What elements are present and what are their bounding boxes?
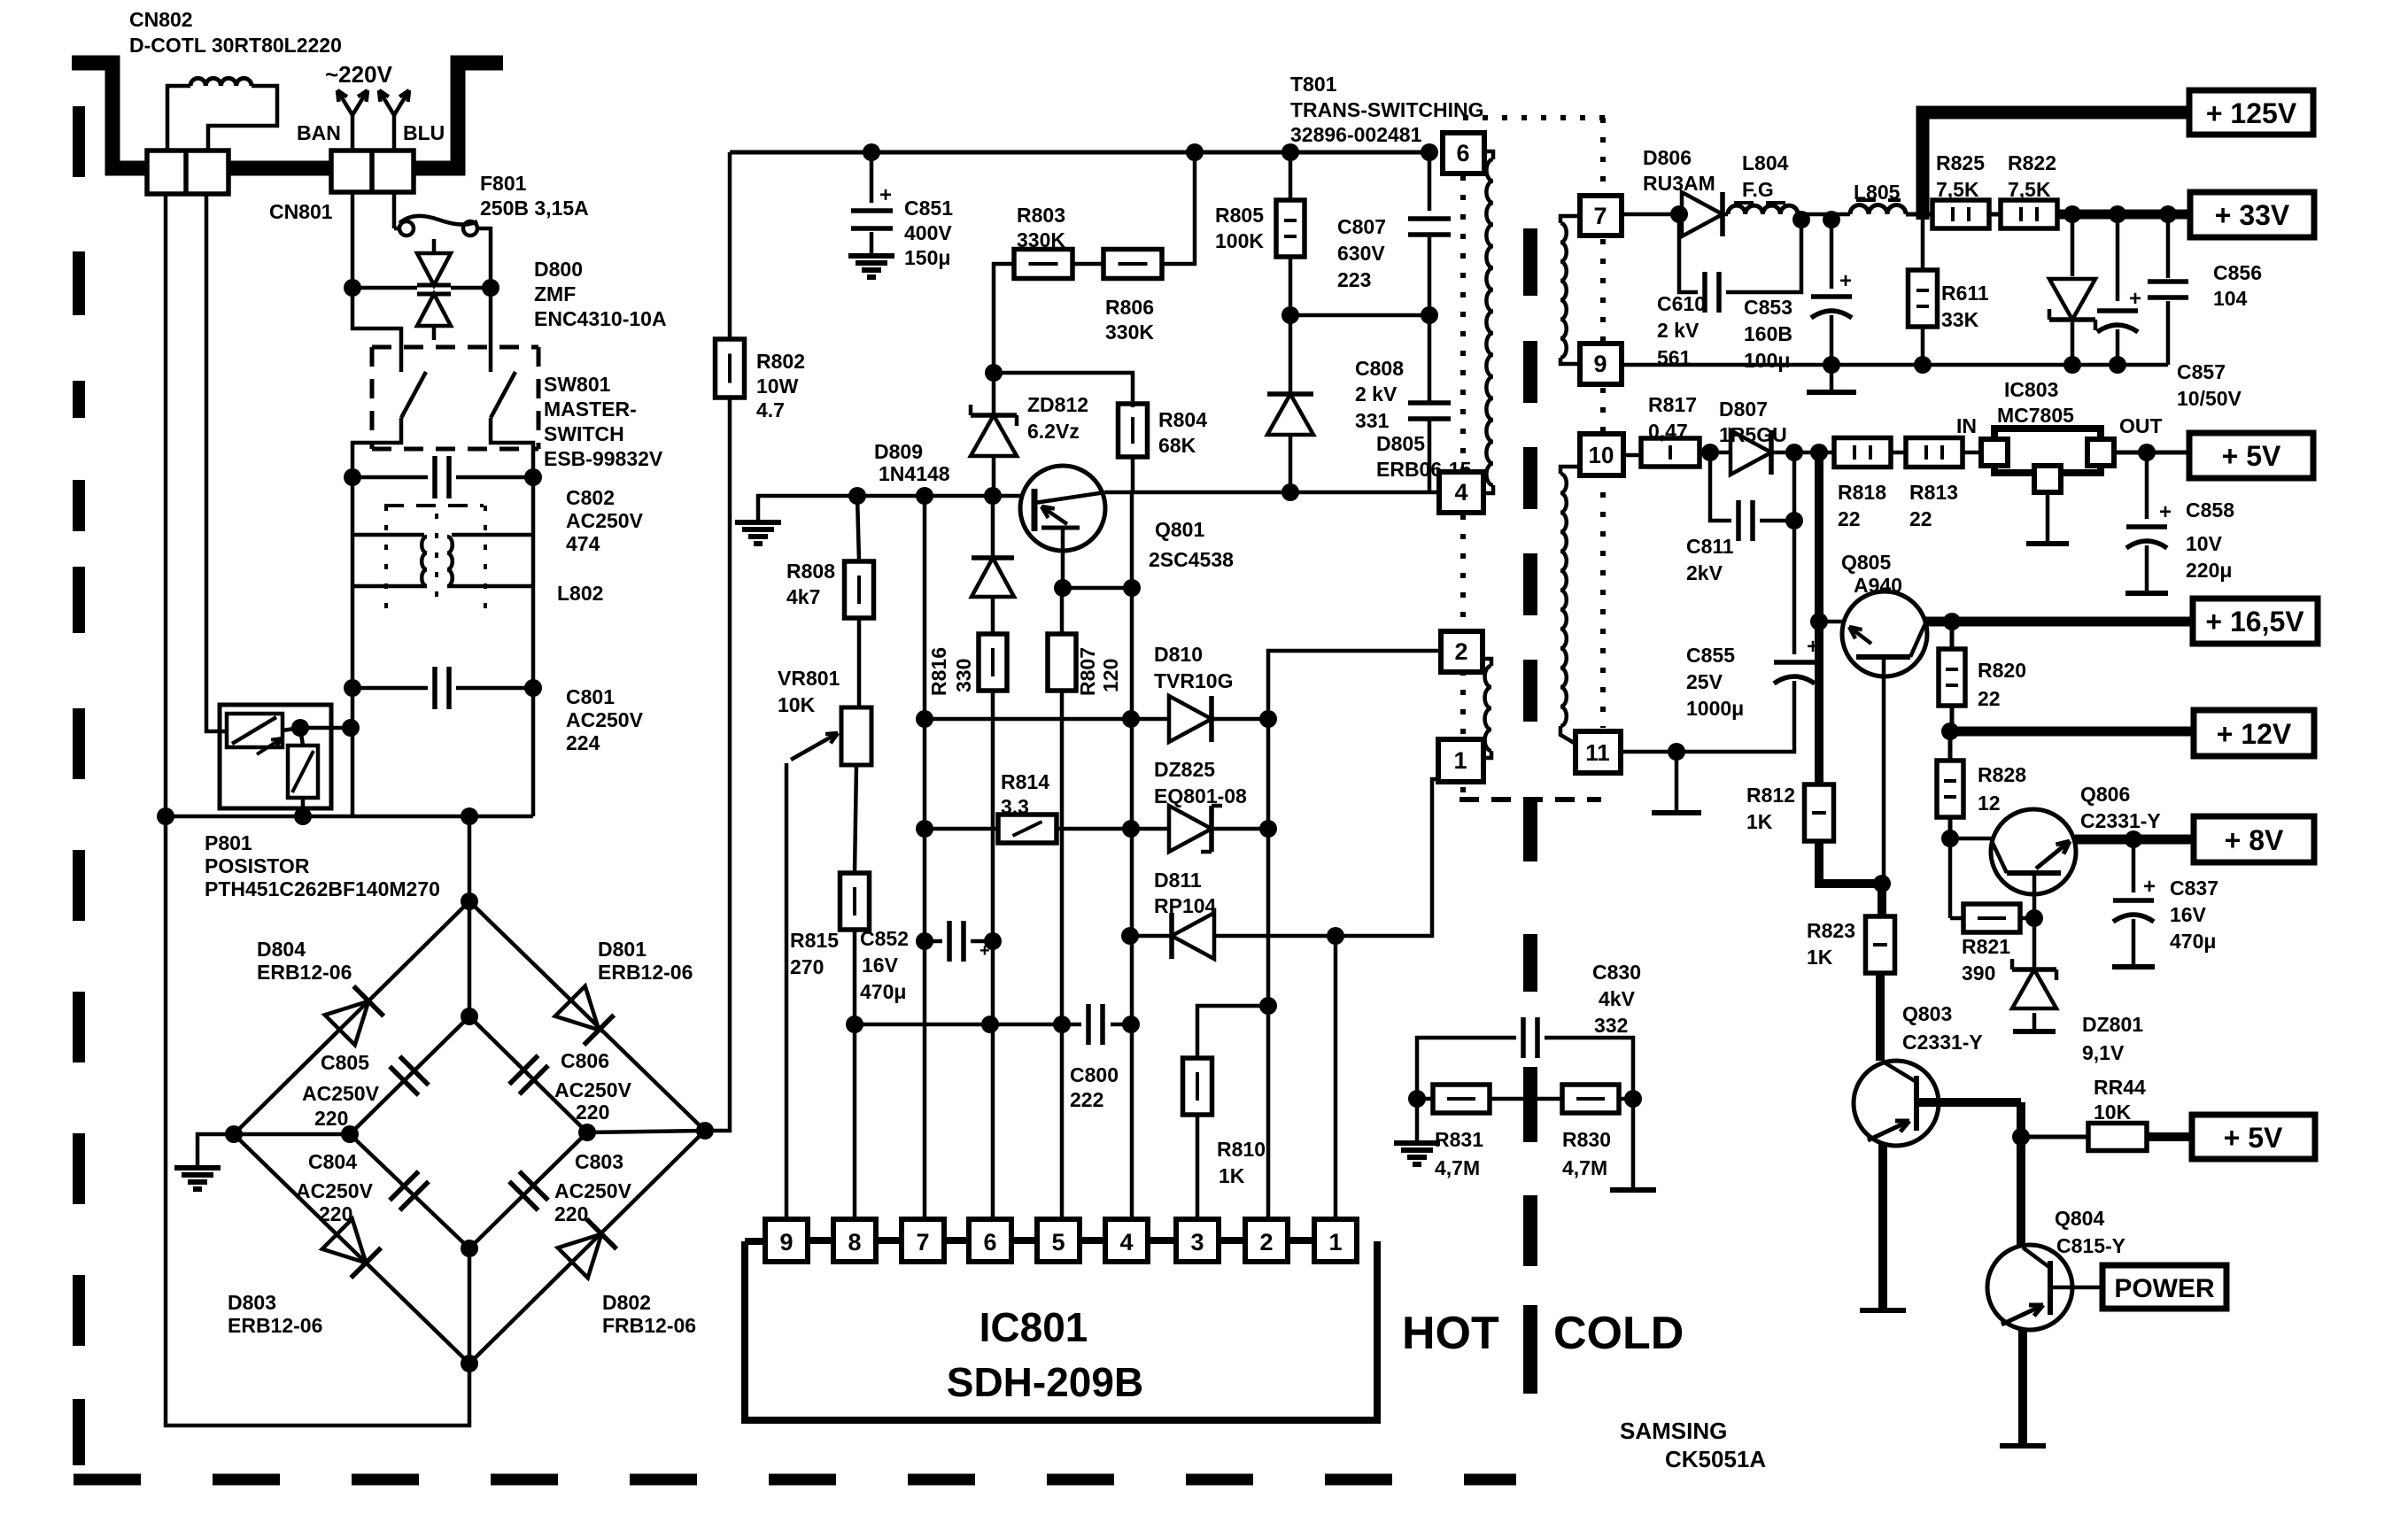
svg-text:EQ801-08: EQ801-08 [1154, 784, 1247, 807]
svg-text:L805: L805 [1854, 181, 1901, 204]
svg-text:POWER: POWER [2114, 1274, 2215, 1303]
diode D806 [1622, 146, 1723, 236]
capacitor C805 [302, 1051, 429, 1130]
node +33V [2190, 192, 2314, 237]
svg-text:32896-002481: 32896-002481 [1290, 123, 1422, 146]
svg-text:SWITCH: SWITCH [544, 422, 624, 445]
pin 1 T801 [1438, 739, 1483, 782]
svg-text:11: 11 [1585, 739, 1610, 766]
svg-text:AC250V: AC250V [302, 1082, 380, 1105]
diode D810 [1131, 643, 1277, 742]
wire pin2 line [1268, 651, 1441, 1219]
winding T801 secondary 2-1 [1483, 659, 1491, 758]
svg-text:R825: R825 [1936, 151, 1985, 174]
svg-text:C803: C803 [575, 1150, 623, 1173]
wire thick mains corner left [72, 63, 149, 168]
capacitor C852 [860, 921, 1002, 1003]
node +16,5V [2193, 599, 2318, 644]
svg-text:R815: R815 [790, 929, 839, 952]
svg-text:6: 6 [1456, 140, 1469, 166]
node POWER [2102, 1265, 2226, 1309]
resistor R818 [1834, 438, 1891, 531]
svg-text:2SC4538: 2SC4538 [1149, 548, 1234, 571]
svg-text:A940: A940 [1854, 574, 1902, 597]
svg-text:BLU: BLU [403, 121, 445, 144]
svg-text:C801: C801 [566, 685, 615, 708]
posistor P801 [205, 705, 440, 900]
pin 9 IC801 [765, 1219, 834, 1262]
svg-text:PTH451C262BF140M270: PTH451C262BF140M270 [205, 877, 440, 900]
svg-text:10K: 10K [778, 693, 816, 716]
wire pin11 to ground [1621, 752, 1701, 813]
svg-text:AC250V: AC250V [566, 509, 644, 532]
svg-text:2kV: 2kV [1686, 561, 1723, 584]
resistor R814 [998, 770, 1057, 843]
wire bridge top feed [468, 816, 472, 901]
winding T801 secondary 7-9 [1560, 216, 1580, 364]
wire AC return to bridge bottom [166, 816, 469, 1425]
svg-text:3: 3 [1190, 1229, 1204, 1255]
resistor R805 [1215, 152, 1305, 324]
svg-text:C830: C830 [1592, 961, 1641, 984]
svg-text:C837: C837 [2170, 877, 2218, 900]
border dashed left [73, 106, 85, 1465]
svg-text:+ 125V: + 125V [2206, 97, 2297, 129]
svg-text:222: 222 [1070, 1088, 1103, 1111]
wire 33V rail mid [1798, 211, 1850, 228]
svg-text:22: 22 [1838, 507, 1861, 530]
pin 2 IC801 [1245, 1219, 1314, 1262]
svg-text:+ 5V: + 5V [2222, 440, 2281, 472]
svg-text:2 kV: 2 kV [1657, 319, 1700, 342]
zener DZ825 [1057, 758, 1277, 852]
svg-text:331: 331 [1355, 409, 1390, 432]
node +5V out [2192, 1115, 2315, 1159]
svg-text:22: 22 [1978, 687, 2001, 710]
resistor R810 [1183, 997, 1278, 1219]
resistor R823 [1807, 884, 1895, 1061]
pin 6 IC801 [969, 1219, 1038, 1262]
border dashed bottom [74, 1474, 1516, 1486]
svg-text:C807: C807 [1337, 215, 1386, 238]
pin 4 IC801 [1105, 1219, 1174, 1262]
transistor Q804 [1987, 1137, 2125, 1446]
svg-text:ERB12-06: ERB12-06 [598, 961, 693, 984]
svg-text:D809: D809 [874, 440, 923, 463]
transistor Q801 [1020, 466, 1234, 588]
svg-text:10W: 10W [756, 375, 799, 398]
svg-text:D806: D806 [1643, 146, 1692, 169]
svg-text:470μ: 470μ [860, 980, 906, 1003]
svg-text:R817: R817 [1648, 393, 1697, 416]
diode D805 [1267, 315, 1472, 501]
svg-text:1: 1 [1453, 747, 1467, 774]
capacitor C855 [1668, 521, 1819, 761]
wire CN802 pin1 down long [157, 194, 174, 825]
svg-text:ENC4310-10A: ENC4310-10A [534, 307, 667, 330]
svg-text:332: 332 [1594, 1014, 1628, 1037]
wire R803 to zener node [985, 264, 1014, 382]
svg-text:DZ801: DZ801 [2082, 1013, 2143, 1036]
svg-text:+: + [979, 941, 990, 961]
svg-text:R611: R611 [1941, 282, 1989, 305]
svg-text:AC250V: AC250V [554, 1078, 632, 1101]
wire D810 row [925, 710, 1140, 728]
inductor L804 [1723, 151, 1798, 214]
svg-text:68K: 68K [1158, 434, 1196, 457]
svg-text:1K: 1K [1807, 946, 1833, 969]
svg-text:MASTER-: MASTER- [544, 398, 637, 421]
capacitor C851 [848, 152, 953, 277]
svg-text:474: 474 [566, 532, 600, 555]
svg-text:R808: R808 [786, 560, 835, 583]
svg-text:C857: C857 [2177, 360, 2226, 383]
capacitor C804 [296, 1150, 429, 1225]
capacitor C808 [1355, 315, 1451, 492]
svg-text:D804: D804 [257, 938, 306, 961]
pin 2 T801 [1441, 631, 1483, 672]
node ~220V AC input arrows [297, 61, 445, 151]
zener near 33V [2049, 214, 2095, 374]
svg-text:R807: R807 [1076, 647, 1099, 696]
svg-text:1: 1 [1328, 1229, 1342, 1255]
svg-text:100μ: 100μ [1744, 349, 1790, 372]
pin 6 T801 [1443, 133, 1484, 174]
svg-text:SDH-209B: SDH-209B [947, 1359, 1143, 1405]
resistor R828 [1937, 731, 2026, 847]
resistor R804 [1119, 404, 1208, 492]
label SAMSING CK5051A [1620, 1418, 1766, 1472]
svg-text:ERB12-06: ERB12-06 [228, 1314, 322, 1337]
svg-text:+ 12V: + 12V [2217, 718, 2292, 750]
svg-text:+: + [879, 183, 892, 207]
snubber C610 [1657, 211, 1810, 369]
svg-text:+ 5V: + 5V [2224, 1122, 2283, 1154]
svg-text:D-COTL 30RT80L2220: D-COTL 30RT80L2220 [129, 34, 342, 57]
svg-text:10K: 10K [2094, 1101, 2132, 1124]
resistor R611 [1909, 220, 1989, 374]
resistor RR44 [2021, 1076, 2192, 1151]
capacitor C803 [509, 1150, 632, 1225]
svg-text:250B 3,15A: 250B 3,15A [480, 197, 589, 220]
diode D801 [555, 938, 693, 1045]
wire top B+ rail [730, 143, 1438, 161]
winding T801 secondary 10-11 [1560, 467, 1580, 744]
pin 11 T801 [1576, 731, 1621, 773]
svg-text:4.7: 4.7 [756, 398, 785, 421]
wire thick mains corner right [412, 63, 503, 168]
svg-text:L804: L804 [1742, 151, 1789, 174]
transistor Q803 [1854, 1002, 2021, 1310]
wire CN801 pin2 down to fuse [392, 192, 397, 228]
svg-text:CN802: CN802 [129, 8, 193, 31]
T801 core dotted lines [1460, 118, 1605, 800]
svg-text:C811: C811 [1686, 535, 1734, 558]
svg-text:9: 9 [779, 1229, 793, 1255]
svg-text:D801: D801 [598, 938, 647, 961]
pin 10 T801 [1580, 434, 1623, 475]
svg-text:R828: R828 [1978, 763, 2026, 786]
svg-text:HOT: HOT [1402, 1308, 1499, 1359]
wire OUT to +5V [2114, 444, 2189, 461]
svg-text:C806: C806 [561, 1049, 609, 1072]
ground R831 [1394, 1099, 1440, 1164]
svg-text:4k7: 4k7 [786, 585, 820, 608]
line filter L802 [352, 477, 603, 816]
svg-text:ZMF: ZMF [534, 282, 576, 305]
svg-text:AC250V: AC250V [566, 708, 644, 731]
diode D802 [558, 1219, 696, 1337]
node +125V [2189, 90, 2313, 135]
svg-text:D810: D810 [1154, 643, 1203, 666]
capacitor C800 [1062, 1004, 1140, 1111]
wire zener node to R804 [994, 373, 1133, 407]
resistor R812 [1746, 622, 1891, 892]
svg-text:7: 7 [1593, 203, 1607, 229]
svg-text:2 kV: 2 kV [1355, 382, 1398, 406]
svg-text:SAMSING: SAMSING [1620, 1418, 1727, 1444]
switch SW801a [401, 358, 426, 436]
svg-text:AC250V: AC250V [554, 1179, 632, 1202]
diode D807 [1700, 398, 1834, 475]
svg-text:224: 224 [566, 731, 600, 754]
svg-text:R812: R812 [1746, 784, 1795, 807]
pin 7 IC801 [902, 1219, 971, 1262]
fuse F801 [394, 172, 589, 236]
wire control row [848, 487, 1020, 505]
svg-text:R806: R806 [1105, 296, 1154, 319]
svg-text:330: 330 [952, 659, 975, 692]
svg-text:7: 7 [916, 1229, 929, 1255]
svg-text:4,7M: 4,7M [1435, 1156, 1480, 1179]
svg-text:220: 220 [554, 1202, 588, 1225]
svg-text:3.3: 3.3 [1001, 795, 1029, 818]
svg-text:VR801: VR801 [778, 667, 840, 690]
svg-text:220: 220 [319, 1202, 352, 1225]
svg-text:D811: D811 [1154, 869, 1202, 892]
svg-text:D800: D800 [534, 258, 583, 281]
svg-text:330K: 330K [1017, 228, 1065, 251]
svg-text:R804: R804 [1158, 408, 1207, 431]
capacitor C853 [1744, 220, 1852, 374]
svg-text:7,5K: 7,5K [2008, 178, 2051, 201]
transistor Q805 [1819, 551, 1952, 883]
svg-text:16V: 16V [862, 954, 899, 977]
resistor R816 [927, 599, 1007, 1219]
wire bridge inner diamond [234, 901, 705, 1364]
resistor R820 [1939, 622, 2026, 740]
svg-text:R830: R830 [1562, 1128, 1611, 1151]
zener DZ801 [2012, 918, 2143, 1064]
svg-text:9,1V: 9,1V [2082, 1041, 2125, 1064]
svg-text:C800: C800 [1070, 1063, 1119, 1086]
regulator IC803 MC7805 [1956, 378, 2163, 544]
potentiometer VR801 [778, 618, 871, 1219]
capacitor C802 [344, 436, 644, 555]
resistor R830 [1562, 1085, 1642, 1179]
ground at bridge negative [174, 1134, 234, 1189]
svg-text:270: 270 [790, 955, 824, 978]
wire triac row [352, 286, 491, 290]
svg-text:IC801: IC801 [979, 1304, 1088, 1350]
svg-text:223: 223 [1337, 268, 1371, 291]
svg-text:Q805: Q805 [1841, 551, 1891, 574]
resistor R815 [790, 765, 870, 1033]
svg-text:C808: C808 [1355, 357, 1404, 380]
svg-text:R816: R816 [927, 647, 950, 696]
wire pin8 lead [853, 1024, 857, 1219]
master switch SW801 dashed box [372, 347, 663, 470]
winding T801 primary [1483, 151, 1493, 493]
wire row B [855, 1016, 1071, 1033]
svg-text:RR44: RR44 [2094, 1076, 2146, 1099]
svg-text:400V: 400V [904, 221, 952, 244]
capacitor C856 [2148, 214, 2262, 365]
svg-text:D805: D805 [1376, 432, 1425, 455]
pin 3 IC801 [1176, 1219, 1245, 1262]
wire bridge positive to R802 line [705, 398, 730, 1131]
wire Q801 emitter node [1054, 492, 1141, 597]
node +8V [2194, 816, 2314, 862]
svg-text:100K: 100K [1215, 229, 1264, 252]
resistor R825 [1906, 151, 1989, 228]
resistor R802 [716, 152, 805, 421]
wire CN802 pin2 down to posistor [206, 194, 227, 731]
connector CN802 [129, 8, 342, 194]
wire pin1 line [1334, 936, 1338, 1219]
svg-text:ZD812: ZD812 [1027, 393, 1088, 416]
wire bridge outer diamond [225, 892, 714, 1372]
svg-text:16V: 16V [2170, 903, 2207, 926]
wire +12V feed [1950, 727, 2194, 737]
svg-text:4kV: 4kV [1599, 987, 1636, 1010]
resistor R817 [1623, 393, 1700, 467]
svg-text:BAN: BAN [297, 121, 341, 144]
svg-text:150μ: 150μ [904, 246, 950, 269]
wire R814 row [925, 827, 999, 831]
HOT COLD boundary dashed [1402, 228, 1684, 1394]
wire fuse to triac node [477, 228, 499, 297]
capacitor C811 [1686, 452, 1803, 584]
diode D804 [257, 938, 383, 1045]
zener ZD812 [971, 373, 1088, 496]
svg-text:F.G: F.G [1742, 178, 1774, 201]
pin 5 IC801 [1037, 1219, 1106, 1262]
svg-text:L802: L802 [557, 582, 603, 605]
svg-text:Q804: Q804 [2055, 1207, 2104, 1230]
svg-text:+ 16,5V: + 16,5V [2205, 606, 2304, 637]
svg-text:C852: C852 [860, 927, 909, 950]
svg-text:1K: 1K [1746, 810, 1773, 833]
resistor R831 [1408, 1085, 1562, 1179]
svg-text:D803: D803 [228, 1291, 276, 1314]
svg-text:MC7805: MC7805 [1997, 404, 2074, 427]
svg-text:R821: R821 [1962, 935, 2010, 958]
capacitor C801 [344, 667, 644, 754]
resistor R808 [786, 496, 874, 618]
svg-text:C804: C804 [308, 1150, 357, 1173]
svg-text:630V: 630V [1337, 242, 1385, 265]
svg-text:+: + [2159, 500, 2172, 524]
pin 9 T801 [1580, 344, 1622, 384]
inductor L805 [1850, 181, 1906, 214]
svg-text:R823: R823 [1807, 919, 1855, 942]
svg-text:C856: C856 [2213, 261, 2262, 284]
svg-text:+ 8V: + 8V [2225, 824, 2284, 856]
capacitor C806 [509, 1049, 632, 1124]
node +5V [2189, 433, 2313, 478]
svg-text:D802: D802 [602, 1291, 651, 1314]
svg-text:ESB-99832V: ESB-99832V [544, 447, 663, 470]
svg-text:12: 12 [1978, 792, 2001, 815]
svg-text:C851: C851 [904, 197, 953, 220]
triac D800 [417, 239, 667, 340]
connector CN801 [269, 151, 414, 223]
svg-text:+: + [2143, 875, 2156, 899]
wire R806 to rail [1162, 152, 1195, 264]
capacitor C857 [2097, 214, 2242, 410]
svg-text:R813: R813 [1909, 481, 1958, 504]
capacitor C858 [2125, 452, 2234, 593]
svg-text:C2331-Y: C2331-Y [2080, 809, 2161, 832]
svg-text:220: 220 [314, 1107, 348, 1130]
pin 8 IC801 [833, 1219, 902, 1262]
svg-text:P801: P801 [205, 831, 252, 854]
wire pin7 line [916, 496, 933, 1219]
svg-text:6.2Vz: 6.2Vz [1027, 420, 1080, 443]
pin 4 T801 [1439, 472, 1483, 513]
switch SW801b [491, 358, 515, 436]
svg-text:T801: T801 [1290, 73, 1337, 96]
inductor on CN802 line [167, 78, 277, 151]
svg-text:1K: 1K [1219, 1164, 1245, 1187]
diode D803 [228, 1219, 381, 1337]
svg-text:~220V: ~220V [325, 61, 393, 88]
wire D811 row to T801 pin1 [1336, 779, 1440, 936]
svg-text:C858: C858 [2186, 498, 2234, 521]
svg-text:4: 4 [1454, 479, 1467, 506]
svg-text:104: 104 [2213, 287, 2248, 310]
svg-text:R822: R822 [2008, 151, 2056, 174]
resistor R806 [1072, 250, 1162, 344]
svg-text:330K: 330K [1105, 321, 1154, 344]
svg-text:RP104: RP104 [1154, 894, 1217, 917]
svg-text:R803: R803 [1017, 204, 1065, 227]
svg-text:DZ825: DZ825 [1154, 758, 1215, 781]
svg-text:COLD: COLD [1553, 1308, 1684, 1359]
svg-text:SW801: SW801 [544, 373, 611, 396]
wire CN801 pin1 down [344, 192, 361, 297]
svg-text:22: 22 [1909, 507, 1932, 530]
transistor Q806 [1950, 783, 2161, 918]
svg-text:2: 2 [1454, 638, 1467, 665]
wire thick mains between connectors [227, 161, 333, 176]
svg-text:33K: 33K [1941, 308, 1979, 331]
svg-text:OUT: OUT [2119, 414, 2163, 437]
svg-text:POSISTOR: POSISTOR [205, 854, 310, 877]
svg-text:TVR10G: TVR10G [1154, 669, 1233, 692]
svg-text:220μ: 220μ [2186, 559, 2232, 582]
wire Q803 base node [2012, 1102, 2030, 1146]
svg-text:CN801: CN801 [269, 200, 333, 223]
svg-text:IC803: IC803 [2004, 378, 2058, 401]
resistor R803 [1014, 204, 1072, 279]
svg-text:Q801: Q801 [1155, 518, 1204, 541]
svg-text:1R5GU: 1R5GU [1719, 423, 1787, 446]
diode D811 [1121, 869, 1344, 959]
svg-text:R814: R814 [1001, 770, 1049, 793]
svg-text:AC250V: AC250V [296, 1179, 374, 1202]
